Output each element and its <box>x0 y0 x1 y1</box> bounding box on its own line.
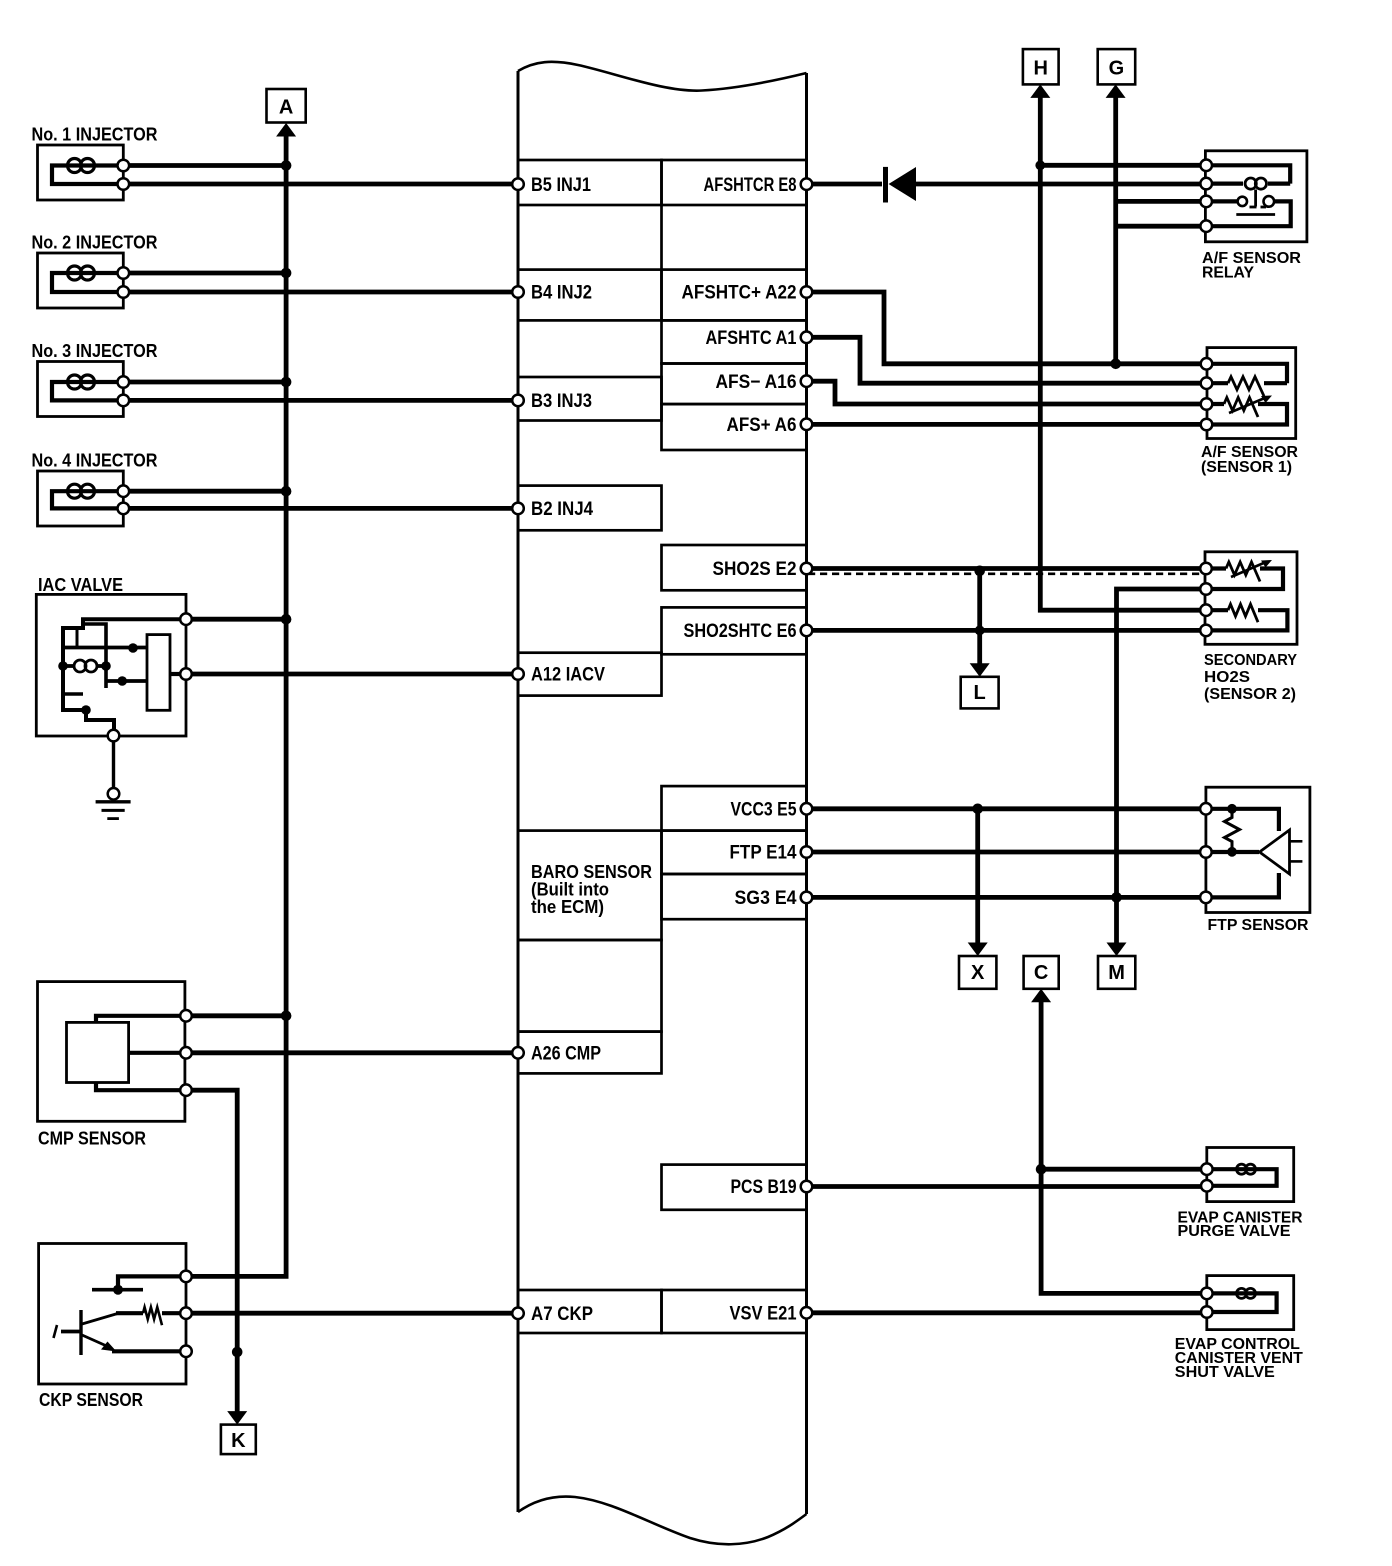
svg-text:(SENSOR 2): (SENSOR 2) <box>1204 686 1296 703</box>
svg-text:No. 1 INJECTOR: No. 1 INJECTOR <box>32 124 158 145</box>
svg-text:AFS− A16: AFS− A16 <box>716 372 797 393</box>
svg-text:K: K <box>231 1430 246 1452</box>
svg-text:H: H <box>1033 57 1047 79</box>
svg-text:A26 CMP: A26 CMP <box>531 1043 601 1064</box>
svg-text:AFS+ A6: AFS+ A6 <box>727 415 797 436</box>
svg-text:AFSHTC A1: AFSHTC A1 <box>706 328 797 349</box>
svg-text:VSV E21: VSV E21 <box>730 1303 797 1324</box>
svg-text:G: G <box>1109 57 1125 79</box>
svg-text:C: C <box>1034 962 1048 984</box>
svg-text:VCC3 E5: VCC3 E5 <box>731 799 797 820</box>
svg-text:CMP SENSOR: CMP SENSOR <box>38 1128 146 1149</box>
svg-text:No. 3 INJECTOR: No. 3 INJECTOR <box>32 340 158 361</box>
svg-text:SECONDARY: SECONDARY <box>1204 652 1297 669</box>
svg-text:FTP SENSOR: FTP SENSOR <box>1208 917 1309 934</box>
svg-text:AFSHTC+ A22: AFSHTC+ A22 <box>682 283 797 304</box>
svg-text:FTP E14: FTP E14 <box>730 843 797 864</box>
svg-text:X: X <box>971 962 985 984</box>
svg-text:SHO2SHTC E6: SHO2SHTC E6 <box>684 621 797 642</box>
svg-text:B5 INJ1: B5 INJ1 <box>531 175 591 196</box>
svg-text:M: M <box>1108 962 1125 984</box>
svg-text:B3 INJ3: B3 INJ3 <box>531 391 592 412</box>
svg-text:A7 CKP: A7 CKP <box>531 1304 593 1325</box>
svg-text:No. 2 INJECTOR: No. 2 INJECTOR <box>32 232 158 253</box>
svg-text:SG3 E4: SG3 E4 <box>735 888 797 909</box>
svg-text:CKP SENSOR: CKP SENSOR <box>39 1389 143 1410</box>
svg-text:(SENSOR 1): (SENSOR 1) <box>1201 459 1292 476</box>
svg-text:RELAY: RELAY <box>1202 265 1254 282</box>
svg-text:HO2S: HO2S <box>1204 669 1250 686</box>
svg-text:B2 INJ4: B2 INJ4 <box>531 499 593 520</box>
svg-text:A12 IACV: A12 IACV <box>531 665 605 686</box>
svg-text:A: A <box>279 97 293 119</box>
svg-text:No. 4 INJECTOR: No. 4 INJECTOR <box>32 450 158 471</box>
svg-text:L: L <box>973 682 985 704</box>
svg-text:PURGE VALVE: PURGE VALVE <box>1178 1223 1291 1240</box>
svg-text:SHO2S E2: SHO2S E2 <box>713 559 797 580</box>
svg-text:the ECM): the ECM) <box>531 897 604 917</box>
svg-text:B4 INJ2: B4 INJ2 <box>531 283 592 304</box>
svg-text:PCS B19: PCS B19 <box>731 1177 797 1198</box>
svg-text:AFSHTCR E8: AFSHTCR E8 <box>704 175 797 196</box>
svg-text:SHUT VALVE: SHUT VALVE <box>1175 1364 1275 1381</box>
svg-text:IAC VALVE: IAC VALVE <box>38 574 123 595</box>
